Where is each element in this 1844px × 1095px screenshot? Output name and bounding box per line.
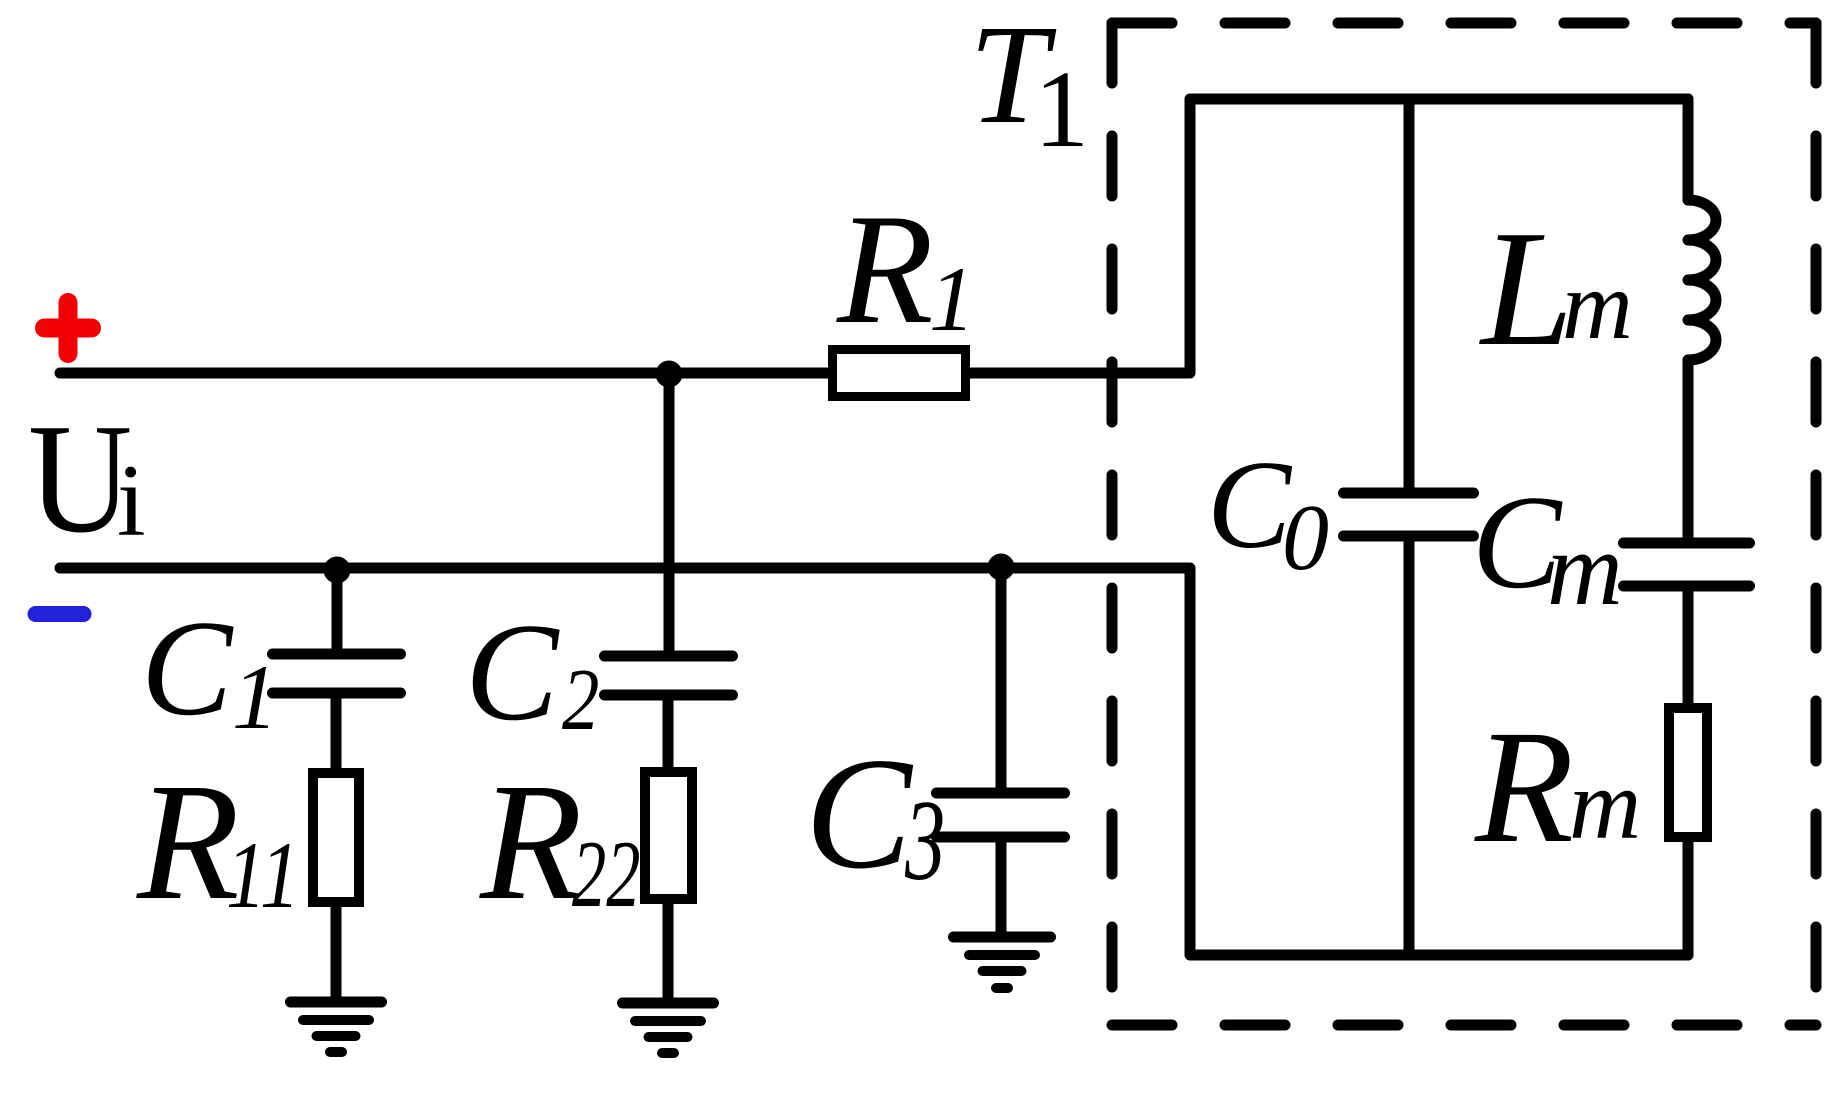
wire C0 top lead (1404, 99, 1415, 490)
wire C1 branch from bottom-rail junction (332, 572, 343, 650)
svg-text:1: 1 (1034, 48, 1089, 170)
resistor R22 (645, 772, 692, 899)
svg-text:C: C (1207, 436, 1293, 575)
resistor Rm (1669, 708, 1707, 837)
wire C1 to R11 (331, 696, 342, 768)
wire R11 to ground (331, 907, 342, 999)
node junction bottom rail / C3 (988, 554, 1015, 581)
svg-text:C: C (141, 592, 234, 744)
wire bottom rail from - terminal into box, down, inner bottom rail (60, 568, 1688, 955)
wire R22 to ground (663, 904, 674, 1000)
capacitor C1 (273, 654, 401, 693)
wire R1 output into box, up, and inner top rail (970, 99, 1688, 373)
plus terminal (45, 303, 92, 354)
wire C2 branch from top-rail junction down across bottom rail (664, 373, 675, 650)
ground (R11) (291, 997, 382, 1008)
wire C0 bottom lead (1404, 539, 1415, 955)
ground (C3) (954, 932, 1051, 943)
wire C2 to R22 (663, 698, 674, 767)
svg-text:11: 11 (226, 823, 300, 928)
svg-text:R: R (836, 182, 934, 357)
svg-text:L: L (1479, 196, 1573, 380)
svg-text:22: 22 (572, 821, 640, 927)
wire C3 to ground (996, 840, 1007, 934)
wire top rail from + terminal to R1 (60, 368, 828, 379)
capacitor Cm (1624, 543, 1750, 586)
wire Lm to Cm (1683, 360, 1694, 540)
node junction bottom rail / C1 (324, 557, 351, 584)
svg-text:2: 2 (562, 650, 599, 748)
svg-text:1: 1 (232, 646, 278, 748)
resistor R1 (833, 350, 966, 397)
svg-text:m: m (1547, 510, 1623, 627)
wire C3 branch from bottom-rail junction (996, 567, 1007, 789)
ground (R22) (623, 998, 714, 1009)
svg-text:R: R (136, 749, 240, 935)
svg-text:i: i (117, 444, 146, 558)
minus terminal (36, 606, 84, 622)
svg-text:R: R (479, 749, 583, 935)
wire Cm to Rm (1683, 589, 1694, 703)
svg-text:1: 1 (929, 248, 975, 350)
svg-text:C: C (465, 595, 560, 750)
wire Lm top lead (1683, 99, 1694, 200)
node junction top rail / C2 (656, 361, 683, 388)
svg-text:m: m (1562, 252, 1633, 360)
svg-text:3: 3 (904, 778, 945, 904)
wire Rm to bottom rail (1683, 842, 1694, 955)
transformer dashed box T1 (1112, 23, 1816, 1025)
svg-text:0: 0 (1282, 486, 1329, 590)
svg-text:m: m (1569, 749, 1641, 860)
svg-text:R: R (1474, 698, 1574, 877)
resistor R11 (313, 773, 359, 902)
svg-text:C: C (805, 724, 914, 902)
capacitor C3 (937, 793, 1065, 837)
capacitor C0 (1344, 493, 1474, 536)
capacitor C2 (605, 656, 733, 695)
inductor Lm (1688, 200, 1716, 360)
